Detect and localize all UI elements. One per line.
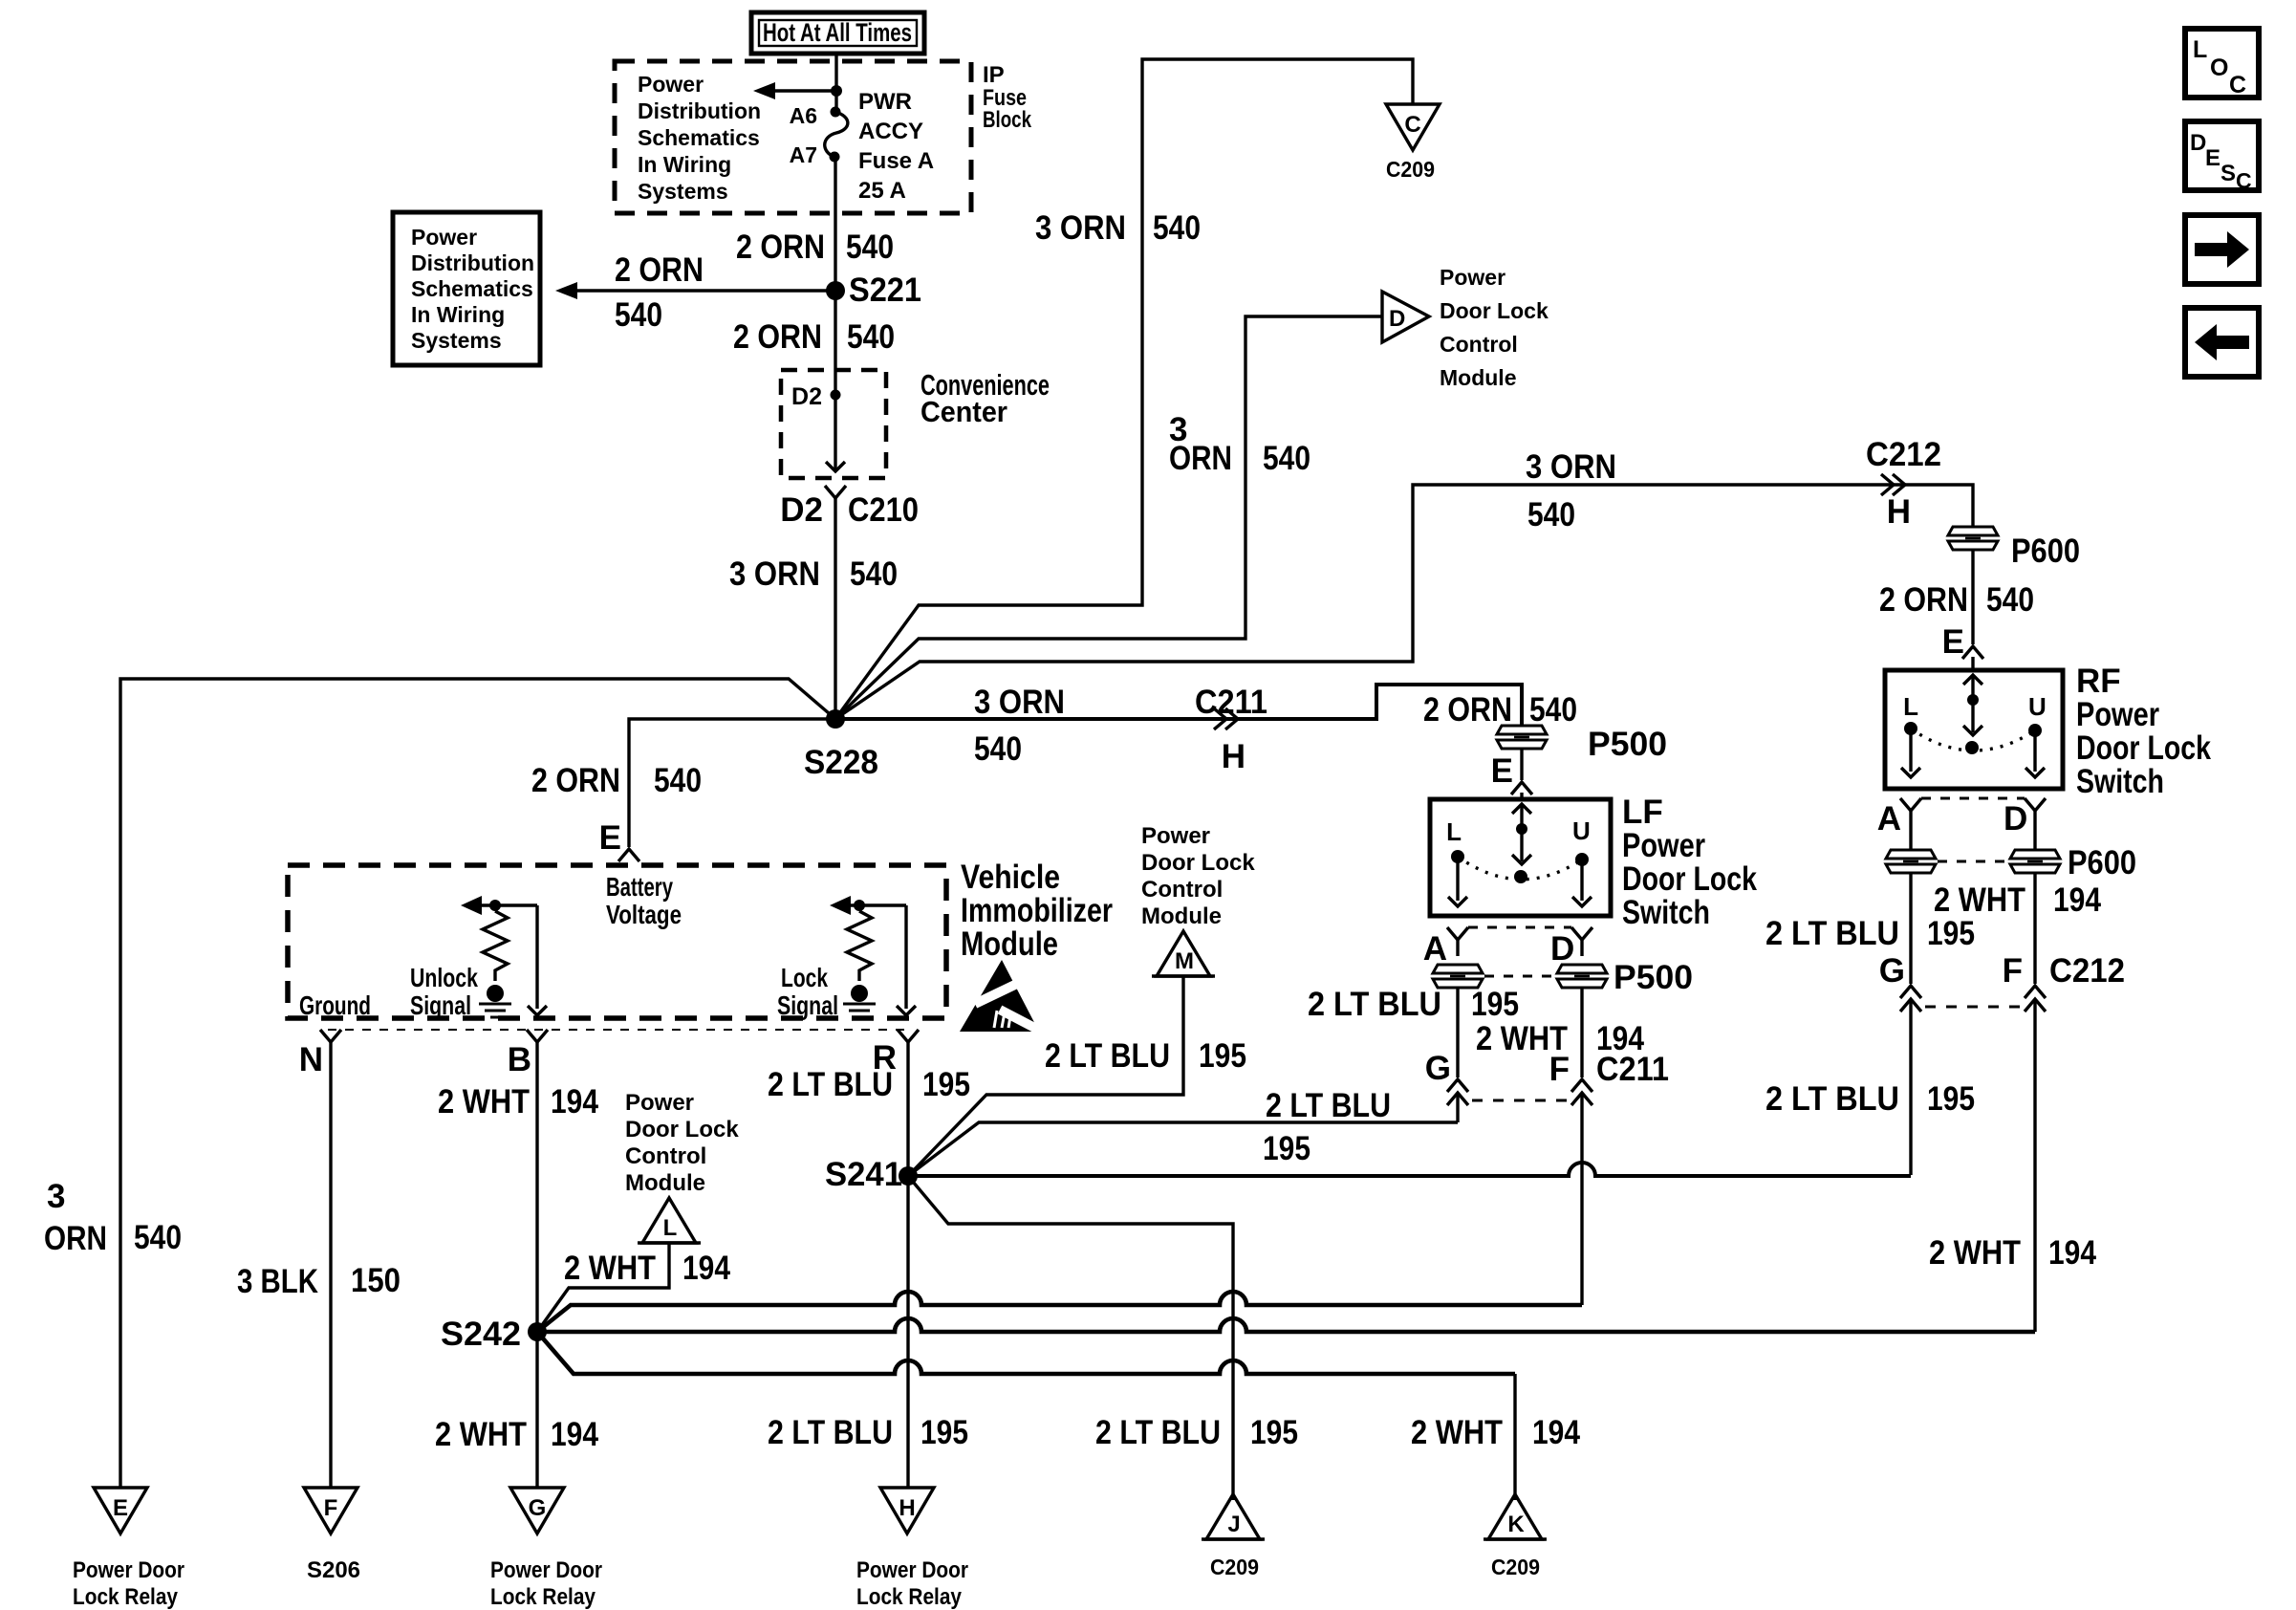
svg-text:Control: Control <box>625 1143 706 1169</box>
wire C212 G down to S241 line <box>1909 999 1912 1175</box>
wire C211 G down to S241 branch <box>1456 1093 1459 1122</box>
svg-text:Door Lock: Door Lock <box>1440 298 1549 323</box>
wire LF pin A to P500 <box>1456 940 1459 956</box>
svg-text:In Wiring: In Wiring <box>411 302 505 327</box>
svg-text:195: 195 <box>1199 1037 1246 1075</box>
immobilizer unlock output: arrow to battery voltage <box>461 896 537 915</box>
label 3 ORN 540 (wire to C) <box>1035 209 1201 247</box>
label Ground <box>299 990 371 1020</box>
svg-text:Module: Module <box>961 925 1058 963</box>
connector C211 pins G and F <box>1425 1050 1669 1105</box>
svg-text:195: 195 <box>921 1414 968 1451</box>
svg-text:Hot At All Times: Hot At All Times <box>763 18 912 47</box>
label 2 ORN / 540 (arrow wire) <box>615 251 704 334</box>
svg-text:E: E <box>113 1495 128 1521</box>
label S206 <box>307 1557 360 1583</box>
svg-text:A7: A7 <box>790 142 817 167</box>
wire: 2 WHT 194 pin B down to S242 <box>535 1042 538 1332</box>
svg-text:Door Lock: Door Lock <box>625 1117 739 1142</box>
svg-text:D: D <box>2004 800 2027 838</box>
svg-text:3 ORN: 3 ORN <box>974 684 1065 721</box>
immobilizer connector row <box>328 1029 908 1031</box>
svg-text:C: C <box>2229 72 2246 98</box>
wire: unlock output to pin B (arrow down) <box>528 905 547 1015</box>
pin B (unlock signal) <box>508 1030 548 1078</box>
pin N (ground) <box>299 1030 341 1078</box>
svg-text:195: 195 <box>922 1066 970 1103</box>
svg-text:2 ORN: 2 ORN <box>615 251 704 289</box>
RF switch wiper arc <box>1911 729 2035 751</box>
svg-text:G: G <box>1425 1050 1451 1087</box>
svg-text:Switch: Switch <box>2076 763 2164 800</box>
DESC button <box>2185 121 2259 193</box>
terminal triangle E (power door lock relay) <box>94 1488 147 1534</box>
svg-text:A: A <box>1423 930 1447 968</box>
svg-text:P600: P600 <box>2068 844 2136 881</box>
svg-text:540: 540 <box>134 1219 182 1256</box>
svg-text:3: 3 <box>47 1178 65 1215</box>
wire: 2 ORN 540 arrow to power distribution schematics <box>555 282 835 299</box>
svg-text:P500: P500 <box>1614 959 1693 996</box>
svg-text:H: H <box>1222 738 1245 775</box>
RF Power Door Lock Switch box <box>1885 670 2063 789</box>
svg-text:Center: Center <box>921 395 1007 428</box>
fuse PWR ACCY Fuse A 25 A <box>825 112 848 157</box>
svg-text:H: H <box>899 1495 915 1521</box>
connector triangle M <box>1152 931 1215 976</box>
splice P600 (2 ORN 540) <box>1948 527 2080 570</box>
immobilizer lock output: arrow to battery voltage <box>830 896 906 915</box>
svg-text:S221: S221 <box>849 272 921 309</box>
svg-text:540: 540 <box>1263 440 1310 477</box>
svg-text:Module: Module <box>625 1170 705 1196</box>
svg-text:2 WHT: 2 WHT <box>1411 1414 1503 1451</box>
svg-text:Signal: Signal <box>410 990 471 1020</box>
svg-text:2 WHT: 2 WHT <box>1929 1234 2021 1272</box>
label 2 LT BLU 195 (C212 G wire) <box>1765 1080 1975 1118</box>
label Power Door Lock Control Module (M) <box>1141 823 1255 929</box>
svg-text:C209: C209 <box>1386 157 1435 182</box>
wire: branch to power distribution (arrow) <box>753 82 836 99</box>
svg-text:Block: Block <box>983 107 1032 133</box>
svg-text:540: 540 <box>1529 691 1577 729</box>
node: feed junction <box>831 85 842 97</box>
svg-text:Systems: Systems <box>638 179 728 204</box>
svg-text:J: J <box>1227 1512 1240 1537</box>
svg-text:C: C <box>1404 112 1420 138</box>
svg-text:G: G <box>529 1495 547 1521</box>
LF switch common arm <box>1512 804 1531 883</box>
svg-text:ORN: ORN <box>44 1220 107 1257</box>
connector C212 pins G and F <box>1879 952 2125 1012</box>
svg-text:F: F <box>2003 952 2023 990</box>
fuse value label PWR ACCY Fuse A 25 A <box>858 89 934 204</box>
svg-text:2 ORN: 2 ORN <box>531 762 620 799</box>
connector C211 pin H (inline >>) <box>1195 684 1267 775</box>
svg-text:C212: C212 <box>2049 952 2125 990</box>
svg-text:540: 540 <box>847 318 895 356</box>
wire: 2 ORN 540 S221 to Convenience Center <box>834 291 836 370</box>
note text: Power Distribution Schematics In Wiring Systems (fuse block) <box>638 72 761 204</box>
label Power Door Lock Control Module (D) <box>1440 265 1549 390</box>
Vehicle Immobilizer Module title <box>961 859 1113 963</box>
svg-text:2 WHT: 2 WHT <box>438 1083 530 1120</box>
svg-text:P500: P500 <box>1588 726 1667 763</box>
svg-text:Schematics: Schematics <box>638 125 760 150</box>
svg-text:C210: C210 <box>848 491 919 529</box>
label 2 LT BLU 195 (J wire) <box>1095 1414 1298 1451</box>
unlock signal pull-up resistor <box>483 911 508 1002</box>
svg-text:540: 540 <box>846 228 894 266</box>
svg-text:Power Door: Power Door <box>856 1557 968 1583</box>
wire through convenience center with arrow <box>826 370 845 471</box>
label Power Door Lock Control Module (L) <box>625 1090 739 1196</box>
node S228 <box>804 709 878 781</box>
label 3 ORN 540 (C210 to S228) <box>729 555 898 593</box>
connector C210 pin D2 <box>780 486 919 529</box>
wire: 2 WHT 194 S242 to C209 K (hops R and J wires) <box>537 1332 1515 1374</box>
RF switch L contact <box>1901 692 1920 777</box>
svg-text:540: 540 <box>1986 581 2034 619</box>
svg-text:540: 540 <box>1527 496 1575 533</box>
svg-text:Control: Control <box>1440 332 1518 357</box>
connector triangle C (C209) <box>1386 104 1440 182</box>
svg-text:2 LT BLU: 2 LT BLU <box>1266 1087 1391 1124</box>
svg-text:Distribution: Distribution <box>638 98 761 123</box>
terminal triangle G (power door lock relay) <box>510 1488 564 1534</box>
wire: 2 WHT 194 S242 to C212 F (hops R and J wires) <box>537 1318 2035 1332</box>
RF switch pins A and D <box>1877 798 2046 838</box>
svg-text:H: H <box>1887 493 1911 531</box>
svg-text:3 ORN: 3 ORN <box>729 555 820 593</box>
svg-text:Signal: Signal <box>777 990 838 1020</box>
svg-text:In Wiring: In Wiring <box>638 152 731 177</box>
label 2 LT BLU 195 (LF lock wire) <box>1308 986 1519 1023</box>
svg-text:N: N <box>299 1041 323 1078</box>
svg-text:ORN: ORN <box>1169 440 1232 477</box>
wire: 2 LT BLU 195 S241 down to power door lock relay H <box>906 1176 909 1488</box>
svg-text:E: E <box>1942 623 1964 661</box>
svg-text:K: K <box>1507 1512 1525 1537</box>
label 2 WHT 194 (RF unlock wire) <box>1934 881 2101 919</box>
svg-text:A6: A6 <box>790 103 817 128</box>
RF switch title <box>2076 663 2211 800</box>
svg-text:D2: D2 <box>780 491 823 529</box>
svg-text:Lock Relay: Lock Relay <box>73 1584 179 1610</box>
splice pair P600 (door harness) <box>1886 844 2136 881</box>
svg-text:150: 150 <box>351 1262 401 1299</box>
wire C211 F down to S242 branch <box>1580 1093 1583 1305</box>
wire P500 down to C211 F <box>1580 988 1583 1077</box>
svg-text:F: F <box>1549 1051 1570 1088</box>
svg-text:LF: LF <box>1622 794 1663 831</box>
label 2 WHT 194 (K wire) <box>1411 1414 1580 1451</box>
splice pair P500 (door harness) <box>1433 959 1693 996</box>
IP Fuse Block dashed box <box>615 61 971 213</box>
label 3 / ORN 540 (left edge wire) <box>44 1178 182 1257</box>
svg-text:2 LT BLU: 2 LT BLU <box>1045 1037 1170 1075</box>
wire into RF switch pin E <box>1971 550 1974 644</box>
wire: 3 ORN 540 S228 to power door lock control module D <box>835 316 1382 719</box>
wire: 2 ORN 540 fuse output down to S221 <box>834 157 836 291</box>
wire P600 down to C212 G <box>1909 873 1912 984</box>
svg-text:C: C <box>2236 168 2252 193</box>
terminal triangle H (power door lock relay) <box>880 1488 934 1534</box>
label 2 ORN 540 (above S221) <box>736 228 894 266</box>
svg-text:194: 194 <box>551 1416 598 1453</box>
svg-text:Battery: Battery <box>606 872 673 902</box>
wire LF pin D to P500 <box>1580 940 1583 956</box>
svg-text:O: O <box>2210 54 2228 81</box>
svg-text:3 BLK: 3 BLK <box>237 1263 318 1300</box>
lock signal pull-up resistor <box>847 911 872 1002</box>
next arrow button <box>2185 215 2259 284</box>
svg-text:2 LT BLU: 2 LT BLU <box>1095 1414 1221 1451</box>
svg-text:Lock Relay: Lock Relay <box>856 1584 963 1610</box>
svg-text:540: 540 <box>654 762 702 799</box>
pin D2 (convenience center) <box>791 383 840 410</box>
svg-text:Door Lock: Door Lock <box>1141 850 1255 876</box>
svg-text:Power Door: Power Door <box>490 1557 602 1583</box>
Convenience Center title <box>921 368 1050 428</box>
svg-text:2 ORN: 2 ORN <box>1879 581 1968 619</box>
svg-text:D: D <box>2190 130 2206 156</box>
svg-text:RF: RF <box>2076 663 2121 700</box>
Vehicle Immobilizer Module dashed box <box>288 865 946 1018</box>
svg-text:Switch: Switch <box>1622 894 1710 931</box>
label Power Door Lock Relay (H) <box>856 1557 968 1610</box>
terminal triangle F (S206) <box>304 1488 357 1534</box>
wire: 2 LT BLU 195 S241 to M <box>908 976 1183 1176</box>
wire: 2 WHT 194 S242 down to power door lock relay G <box>535 1332 538 1488</box>
ESD sensitive symbol <box>960 960 1044 1033</box>
svg-text:Schematics: Schematics <box>411 276 533 301</box>
svg-text:194: 194 <box>682 1250 730 1287</box>
label 3 ORN / 540 (C212 feed) <box>1526 448 1616 533</box>
label 2 LT BLU 195 (above H) <box>768 1414 968 1451</box>
svg-text:194: 194 <box>2048 1234 2096 1272</box>
svg-text:S: S <box>2220 161 2236 186</box>
wire RF pin D to P600 <box>2033 811 2036 849</box>
svg-text:2 ORN: 2 ORN <box>1423 691 1512 729</box>
wire P500 down to C211 G <box>1456 988 1459 1077</box>
svg-text:Fuse A: Fuse A <box>858 148 934 174</box>
label 2 WHT 194 (above G) <box>435 1416 598 1453</box>
svg-text:S206: S206 <box>307 1557 360 1583</box>
svg-text:Vehicle: Vehicle <box>961 859 1060 896</box>
wire: 2 LT BLU 195 S241 to C211 G <box>908 1122 1458 1176</box>
wire RF pin A to P600 <box>1909 811 1912 849</box>
label 2 ORN 540 (immobilizer feed) <box>531 762 702 799</box>
svg-text:Lock Relay: Lock Relay <box>490 1584 596 1610</box>
svg-text:IP: IP <box>983 62 1005 88</box>
svg-text:195: 195 <box>1250 1414 1298 1451</box>
pin A7 <box>790 142 840 167</box>
connector triangle D <box>1382 292 1429 342</box>
svg-text:Door Lock: Door Lock <box>2076 729 2211 767</box>
svg-text:Power: Power <box>1141 823 1210 849</box>
label 3 BLK 150 <box>237 1262 401 1300</box>
svg-text:194: 194 <box>551 1083 598 1120</box>
terminal E (LF switch) <box>1491 752 1532 799</box>
wire: 2 ORN 540 S228 to vehicle immobilizer module E <box>629 719 835 847</box>
wire: 3 ORN 540 S228 left to power door lock relay (left edge) <box>120 679 835 1488</box>
wire: 2 LT BLU 195 S241 to C212 G (hops C211 F) <box>908 1163 1911 1176</box>
connector C212 pin H (inline >>) <box>1866 436 1941 531</box>
svg-text:E: E <box>599 819 621 857</box>
label Battery Voltage <box>606 872 682 929</box>
svg-text:194: 194 <box>2053 881 2101 919</box>
svg-text:Module: Module <box>1141 903 1222 929</box>
node S241 <box>825 1156 918 1193</box>
label 2 ORN 540 (below S221) <box>733 318 895 356</box>
splice P500 (2 ORN 540) <box>1497 726 1667 763</box>
svg-text:Voltage: Voltage <box>606 900 682 929</box>
previous arrow button <box>2185 308 2259 377</box>
LF switch L contact <box>1446 817 1467 906</box>
svg-text:L: L <box>2193 36 2207 63</box>
svg-text:195: 195 <box>1927 915 1975 952</box>
svg-text:D2: D2 <box>791 383 822 410</box>
LF Power Door Lock Switch box <box>1430 799 1611 916</box>
IP Fuse Block title <box>983 62 1032 133</box>
svg-text:C211: C211 <box>1596 1051 1669 1088</box>
terminal E (immobilizer) <box>599 819 639 861</box>
svg-text:PWR: PWR <box>858 89 912 115</box>
svg-text:Distribution: Distribution <box>411 250 534 275</box>
wire: 2 WHT 194 S242 to L <box>537 1243 669 1332</box>
ground symbol (lock signal) <box>843 1004 876 1017</box>
wire: K drop <box>1513 1374 1516 1500</box>
svg-text:2 LT BLU: 2 LT BLU <box>768 1414 893 1451</box>
RF switch common arm <box>1963 675 1982 754</box>
LOC button <box>2185 29 2259 98</box>
label 3 ORN / 540 (C211 feed) <box>974 684 1065 768</box>
svg-text:25 A: 25 A <box>858 178 906 204</box>
svg-text:E: E <box>1491 752 1513 790</box>
label 2 WHT 194 (wire to L) <box>564 1250 730 1287</box>
svg-text:2 ORN: 2 ORN <box>733 318 822 356</box>
svg-text:U: U <box>1572 816 1591 845</box>
svg-text:F: F <box>324 1495 338 1521</box>
wire: 3 ORN 540 S228 up to C209 connector C <box>835 59 1413 719</box>
svg-text:540: 540 <box>974 730 1022 768</box>
wire: 3 ORN 540 S228 right to C211 (LF door) <box>835 685 1522 726</box>
svg-text:C211: C211 <box>1195 684 1267 721</box>
svg-text:195: 195 <box>1263 1130 1310 1167</box>
svg-text:P600: P600 <box>2011 533 2080 570</box>
connector triangle K (C209) <box>1484 1494 1547 1579</box>
svg-text:2 WHT: 2 WHT <box>564 1250 656 1287</box>
label Power Door Lock Relay (E) <box>73 1557 184 1610</box>
LF switch wiper arc <box>1458 857 1582 880</box>
label 2 ORN 540 (P600 drop) <box>1879 581 2034 619</box>
wire: 2 LT BLU 195 S241 to C209 J <box>908 1176 1233 1500</box>
wire C212 F down to S242 line <box>2033 999 2036 1332</box>
svg-text:194: 194 <box>1532 1414 1580 1451</box>
svg-text:2 LT BLU: 2 LT BLU <box>1765 915 1899 952</box>
svg-text:S242: S242 <box>441 1316 521 1353</box>
svg-text:S241: S241 <box>825 1156 902 1193</box>
pin A6 <box>790 103 841 128</box>
svg-text:D: D <box>1389 306 1405 332</box>
power label box "Hot At All Times" <box>751 12 924 54</box>
svg-text:2 WHT: 2 WHT <box>435 1416 527 1453</box>
svg-text:540: 540 <box>1153 209 1201 247</box>
svg-text:3 ORN: 3 ORN <box>1526 448 1616 486</box>
label 2 LT BLU / 195 (wire to C211 G) <box>1263 1087 1391 1167</box>
node S242 <box>441 1316 547 1353</box>
LF switch title <box>1622 794 1757 931</box>
label 2 WHT 194 (pin B) <box>438 1083 598 1120</box>
terminal E (RF switch) <box>1942 623 1983 670</box>
ground symbol (unlock signal) <box>479 1004 511 1017</box>
svg-text:ACCY: ACCY <box>858 119 923 144</box>
LF switch U contact <box>1572 816 1592 906</box>
svg-text:Lock: Lock <box>781 963 828 992</box>
svg-text:C209: C209 <box>1491 1555 1540 1579</box>
wire P600 down to C212 F <box>2033 873 2036 984</box>
label 2 ORN 540 (P500 drop) <box>1423 691 1577 729</box>
svg-text:Control: Control <box>1141 877 1223 903</box>
svg-text:Power: Power <box>1440 265 1505 290</box>
svg-text:E: E <box>2205 145 2220 171</box>
svg-text:2 LT BLU: 2 LT BLU <box>1765 1080 1899 1118</box>
svg-text:540: 540 <box>615 296 662 334</box>
svg-text:D: D <box>1550 930 1574 968</box>
svg-text:G: G <box>1879 952 1905 990</box>
pin R (lock signal) <box>873 1030 919 1077</box>
label 2 LT BLU 195 (pin R) <box>768 1066 970 1103</box>
RF switch U contact <box>2025 692 2047 777</box>
connector triangle L <box>638 1198 701 1243</box>
svg-text:3 ORN: 3 ORN <box>1035 209 1126 247</box>
label Lock Signal <box>777 963 838 1020</box>
svg-text:Power: Power <box>638 72 704 97</box>
wire: 2 WHT 194 S242 to C211 F (hops R wire) <box>537 1292 1582 1332</box>
wire: 2 LT BLU 195 pin R down to S241 <box>906 1042 909 1176</box>
svg-text:Immobilizer: Immobilizer <box>961 892 1113 929</box>
svg-text:C209: C209 <box>1210 1555 1259 1579</box>
svg-text:Power: Power <box>1622 827 1705 864</box>
svg-text:2 LT BLU: 2 LT BLU <box>768 1066 893 1103</box>
connector triangle J (C209) <box>1202 1494 1265 1579</box>
label 3 / ORN 540 (wire to D) <box>1169 411 1310 477</box>
svg-text:M: M <box>1175 948 1194 974</box>
svg-text:L: L <box>1446 817 1462 846</box>
label 2 WHT 194 (LF unlock wire) <box>1476 1020 1644 1057</box>
label Power Door Lock Relay (G) <box>490 1557 602 1610</box>
svg-text:S228: S228 <box>804 744 878 781</box>
svg-text:540: 540 <box>850 555 898 593</box>
svg-text:Door Lock: Door Lock <box>1622 860 1757 898</box>
svg-text:195: 195 <box>1927 1080 1975 1118</box>
svg-text:2 LT BLU: 2 LT BLU <box>1308 986 1441 1023</box>
svg-text:Module: Module <box>1440 365 1517 390</box>
wire: 3 ORN 540 S228 to C212 (RF door) <box>835 485 1973 719</box>
label 2 LT BLU 195 (RF lock wire) <box>1765 915 1975 952</box>
svg-text:L: L <box>1903 692 1918 721</box>
svg-text:Systems: Systems <box>411 328 502 353</box>
svg-text:Ground: Ground <box>299 990 371 1020</box>
svg-text:L: L <box>663 1215 678 1241</box>
svg-text:195: 195 <box>1471 986 1519 1023</box>
reference box: Power Distribution Schematics In Wiring Systems <box>393 212 540 365</box>
Convenience Center dashed box <box>781 370 886 478</box>
label 2 WHT 194 (C212 F wire) <box>1929 1234 2096 1272</box>
svg-text:Power: Power <box>411 225 477 250</box>
svg-text:C212: C212 <box>1866 436 1941 473</box>
